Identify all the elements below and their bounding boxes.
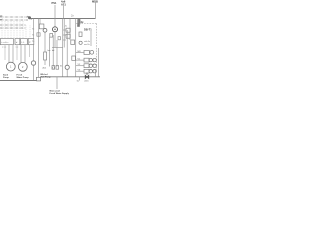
svg-text:A21: A21: [61, 2, 66, 6]
svg-text:DB-T1: DB-T1: [84, 28, 92, 32]
wire dash-dot feeder C: [0, 24, 26, 26]
svg-text:u u u: u u u: [2, 46, 6, 48]
contact box small F2: [39, 24, 44, 29]
valve row 1 actuators: [89, 58, 96, 61]
wire riser right: [95, 3, 97, 19]
contact box C8: [52, 66, 55, 70]
wire panel inner riser: [90, 31, 92, 46]
svg-text:Water Pump: Water Pump: [17, 76, 30, 79]
labels: all tiny text: [0, 0, 98, 95]
panel entry gland: [77, 24, 80, 27]
wire tap T1: [33, 19, 35, 39]
wire panel right bus: [98, 48, 100, 77]
wire M4 stem up: [66, 30, 68, 65]
valve row 2 coil: [84, 64, 89, 68]
wire col x53: [52, 35, 54, 67]
svg-text:Tx: Tx: [32, 28, 34, 30]
relay cluster ties: [63, 30, 66, 40]
relay K7: [71, 40, 75, 44]
wire supply dash-dot feeder B: [0, 19, 28, 21]
pump P3 small: [31, 61, 35, 65]
wire row3: [76, 70, 84, 72]
contact box C7: [72, 56, 76, 60]
svg-text:PS1: PS1: [52, 1, 57, 5]
starter box K4: [28, 39, 34, 45]
svg-text:Pump: Pump: [3, 77, 10, 79]
wire tap T4: [69, 19, 71, 41]
wire bottom header right: [41, 76, 101, 78]
wire spare leads: [5, 45, 30, 60]
valve row 0 coil: [84, 51, 89, 55]
wire drop to meter M: [54, 5, 56, 27]
meter M3 kwh: [53, 27, 58, 32]
valve row 1 coil: [84, 58, 89, 62]
valve row 0 actuator: [90, 50, 94, 54]
starter box K1 row: [0, 39, 13, 45]
wire row0: [76, 52, 84, 54]
heater R1: [44, 52, 47, 60]
wire cross tie: [52, 47, 63, 49]
wire double riser D1: [62, 19, 64, 77]
wire row1: [76, 59, 84, 61]
svg-text:t c d t c: t c d t c: [2, 41, 10, 44]
wire R1 bottom lead: [44, 60, 46, 65]
wire drop x95 bottom: [95, 70, 97, 77]
node J1 junction blob: [28, 16, 32, 20]
svg-text:ctrl 4x: ctrl 4x: [84, 40, 91, 43]
valve row 3 actuators: [89, 70, 96, 73]
wire drop x79 below: [79, 77, 81, 81]
motor M2: [18, 62, 27, 71]
fuse F3 on bus: [78, 20, 80, 25]
svg-text:hm: hm: [48, 50, 51, 52]
wire motor1 leads: [9, 45, 13, 63]
svg-text:Fresh Water Supply: Fresh Water Supply: [50, 92, 70, 95]
svg-text:u u: u u: [16, 46, 19, 48]
wire double riser D2: [63, 19, 65, 48]
valve row 3 coil: [84, 69, 89, 73]
wire pump P3 stem: [33, 45, 35, 61]
wire tap T5 panel feed: [75, 19, 77, 77]
wire m2 stem: [44, 32, 46, 52]
wire row2: [76, 65, 84, 67]
breaker Q1: [79, 32, 82, 37]
panel enclosure dashed: [76, 24, 97, 71]
wire col x49: [49, 37, 51, 67]
indicator lamp H1: [79, 41, 82, 44]
wire pump P3 lower stem: [33, 65, 35, 80]
svg-text:fm: fm: [60, 65, 63, 67]
svg-text:sw 2x: sw 2x: [84, 44, 90, 46]
wire tap T3: [39, 19, 41, 25]
relay K6: [66, 34, 70, 38]
left dotted drops grid: [2, 21, 30, 39]
starter box K3: [21, 39, 28, 45]
svg-text:6x: 6x: [77, 81, 79, 83]
contact box C5: [50, 34, 53, 38]
meter m2 circle: [43, 28, 47, 32]
meter box W1: [37, 77, 41, 81]
wire dash-dot feeder D: [0, 27, 26, 29]
aux contact box C6: [58, 37, 60, 40]
wire supply dash-dot feeder A: [0, 16, 28, 18]
overload block O1: [37, 33, 40, 36]
wire supply stem bottom: [56, 77, 58, 89]
contact box C9: [56, 66, 59, 70]
svg-text:Sub Pump: Sub Pump: [41, 76, 52, 78]
wire drop PS2: [63, 6, 65, 19]
svg-text:4x: 4x: [65, 25, 67, 27]
valve row 2 actuators: [89, 64, 96, 67]
svg-text:MDB: MDB: [92, 0, 98, 3]
relay K5: [66, 28, 70, 32]
svg-text:Tx: Tx: [32, 41, 34, 43]
meter M4 circle: [65, 65, 69, 69]
wire col x57: [56, 40, 58, 67]
starter box K2: [15, 39, 20, 45]
wire motor2 leads: [21, 45, 25, 63]
svg-text:Tx: Tx: [32, 34, 34, 36]
valve V9 bowtie: [85, 73, 89, 79]
svg-text:bd: bd: [52, 50, 54, 52]
wire M4 stem down: [66, 69, 68, 76]
svg-text:MV: MV: [78, 51, 82, 53]
wire M3 lower: [54, 32, 56, 48]
wire bottom header left: [0, 80, 37, 82]
motor M1: [6, 62, 15, 71]
wire tap T2: [38, 19, 40, 78]
wire main bus L: [31, 18, 96, 20]
